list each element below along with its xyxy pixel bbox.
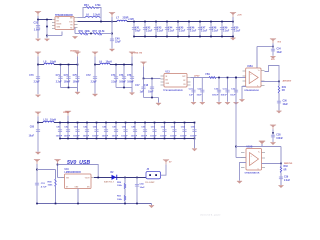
junction rail e bbox=[136, 203, 138, 205]
resistor R57 label bbox=[93, 30, 106, 37]
junction C81 bottom bbox=[59, 138, 61, 140]
ground G5 bbox=[230, 38, 235, 41]
ground G3 bbox=[109, 49, 114, 52]
op-amp U15B bbox=[246, 147, 262, 171]
svg-text:C71: C71 bbox=[56, 75, 61, 77]
svg-text:EN: EN bbox=[57, 21, 60, 23]
inductor L6 bbox=[85, 17, 100, 18]
capacitor C86 label bbox=[102, 126, 109, 137]
wire U15B inminus bbox=[240, 163, 247, 181]
capacitor C31 label bbox=[220, 88, 227, 96]
junction C50 top bbox=[232, 21, 234, 23]
svg-text:10nF: 10nF bbox=[196, 94, 202, 96]
svg-text:C80: C80 bbox=[30, 126, 35, 128]
capacitor C43 branch wire bbox=[155, 22, 157, 37]
svg-text:100nF: 100nF bbox=[141, 136, 148, 138]
wire block2 rail bbox=[95, 64, 132, 66]
capacitor C70 label bbox=[29, 75, 40, 83]
capacitor C89 branch bbox=[134, 123, 136, 139]
capacitor C90 label bbox=[141, 126, 148, 137]
resistor R54 label bbox=[84, 4, 89, 7]
junction C76 top bbox=[123, 64, 125, 66]
ground C21 bbox=[191, 102, 196, 105]
svg-text:100k: 100k bbox=[48, 185, 54, 187]
junction C45 bottom bbox=[177, 36, 179, 38]
capacitor C36 bbox=[277, 101, 281, 104]
connector J5 part text bbox=[145, 182, 155, 184]
svg-text:100nF: 100nF bbox=[160, 136, 167, 138]
capacitor C18 bbox=[150, 87, 154, 90]
capacitor C83 label bbox=[73, 126, 80, 137]
svg-text:R61: R61 bbox=[117, 196, 122, 198]
capacitor C70 bbox=[36, 76, 40, 79]
capacitor C73 branch bbox=[68, 65, 70, 88]
wire EN bus vertical bbox=[46, 20, 48, 39]
power flag VDD rail bbox=[109, 12, 115, 21]
capacitor C81 label bbox=[56, 126, 63, 137]
capacitor C74 label bbox=[111, 74, 118, 83]
capacitor C50 label bbox=[234, 26, 241, 32]
capacitor C38 bbox=[271, 135, 275, 138]
power flag 1V8 end bbox=[230, 12, 236, 21]
capacitor C36 label bbox=[283, 101, 289, 106]
wire U15A output bbox=[261, 81, 279, 83]
svg-text:VIN: VIN bbox=[57, 18, 61, 20]
resistor R33 label bbox=[284, 166, 289, 171]
capacitor C44 bbox=[165, 27, 169, 29]
capacitor C17 bbox=[141, 87, 145, 90]
capacitor C17 branch bbox=[143, 79, 145, 98]
capacitor C33 label bbox=[34, 22, 39, 25]
capacitor C80 bbox=[36, 129, 40, 132]
capacitor C90 bbox=[143, 129, 147, 132]
junction block1 gnd bbox=[68, 87, 70, 89]
capacitor C95 branch bbox=[194, 123, 196, 139]
junction C44 top bbox=[166, 21, 168, 23]
svg-text:C54: C54 bbox=[140, 183, 145, 186]
svg-text:100nF: 100nF bbox=[220, 94, 227, 96]
net label +1V8 bbox=[128, 18, 134, 21]
capacitor C43 bbox=[154, 27, 158, 29]
capacitor C84 branch bbox=[86, 123, 88, 139]
ground C31 bbox=[225, 102, 230, 105]
capacitor C82 label bbox=[64, 126, 71, 137]
junction C95 top bbox=[194, 122, 196, 124]
resistor R59 bbox=[124, 184, 125, 189]
ground G17 bbox=[259, 141, 265, 145]
junction C87 bottom bbox=[115, 138, 117, 140]
wire 1V8 bottom rail bbox=[134, 36, 233, 38]
svg-text:2.2uF: 2.2uF bbox=[223, 30, 230, 33]
svg-text:1%: 1% bbox=[96, 8, 99, 10]
capacitor C91 label bbox=[150, 126, 157, 137]
capacitor C92 bbox=[162, 129, 166, 132]
capacitor C94 branch bbox=[184, 123, 186, 139]
svg-text:GND: GND bbox=[57, 27, 61, 29]
svg-text:R59: R59 bbox=[117, 182, 122, 184]
junction C83 bottom bbox=[77, 138, 79, 140]
capacitor C81 bbox=[58, 129, 62, 132]
capacitor C41 bbox=[132, 27, 136, 29]
power flag VDD3 bbox=[35, 112, 41, 123]
capacitor C78 branch bbox=[131, 65, 133, 88]
capacitor C85 bbox=[94, 129, 98, 132]
svg-text:2.2uF: 2.2uF bbox=[179, 30, 186, 33]
junction C85 bottom bbox=[96, 138, 98, 140]
capacitor C18 label bbox=[144, 85, 154, 94]
sheet footnote bbox=[200, 214, 221, 217]
capacitor C38 branch bbox=[272, 133, 274, 142]
junction C49 bottom bbox=[221, 36, 223, 38]
inductor L7 bbox=[117, 20, 127, 21]
svg-text:100nF: 100nF bbox=[212, 94, 219, 96]
junction EN bus low bbox=[46, 35, 48, 37]
power flag VSYS bbox=[35, 11, 41, 19]
wire MODE riser bbox=[61, 32, 63, 36]
svg-text:5V0: 5V0 bbox=[278, 41, 281, 43]
svg-text:C75: C75 bbox=[73, 75, 78, 77]
wire VOUT main bbox=[78, 21, 118, 23]
svg-text:2.2uF: 2.2uF bbox=[212, 30, 219, 33]
inductor L10 bbox=[43, 121, 54, 122]
capacitor C42 bbox=[143, 27, 147, 29]
IC U15A pin stubs right bbox=[261, 71, 265, 86]
resistor R58 bbox=[55, 179, 56, 187]
svg-text:C38: C38 bbox=[276, 134, 281, 136]
svg-text:C73: C73 bbox=[64, 75, 69, 77]
ground C32 bbox=[233, 102, 238, 105]
junction C94 bottom bbox=[184, 138, 186, 140]
capacitor C45 bbox=[176, 27, 180, 29]
op-amp U12 pin stubs left bbox=[52, 20, 55, 29]
junction C42 bottom bbox=[144, 36, 146, 38]
svg-text:EN: EN bbox=[166, 80, 169, 82]
svg-text:2.2uF: 2.2uF bbox=[190, 30, 197, 33]
junction rail b bbox=[55, 203, 57, 205]
wire row3 gnd stem bbox=[194, 139, 196, 149]
wire LDO bottom rail bbox=[144, 97, 159, 99]
junction C90 top bbox=[144, 122, 146, 124]
junction C32 bbox=[235, 77, 237, 79]
svg-text:R58: R58 bbox=[48, 181, 53, 183]
wire ref input vertical bbox=[235, 78, 237, 158]
junction C49 top bbox=[221, 21, 223, 23]
svg-text:V+: V+ bbox=[258, 151, 260, 153]
junction C82 bottom bbox=[67, 138, 69, 140]
svg-text:10nF: 10nF bbox=[148, 92, 154, 94]
IC U13 part text bbox=[163, 89, 183, 92]
svg-text:100nF: 100nF bbox=[73, 136, 80, 138]
svg-text:2.2uF: 2.2uF bbox=[56, 81, 63, 83]
capacitor C34 label bbox=[277, 48, 283, 54]
ground G12 bbox=[276, 111, 281, 114]
svg-text:VOS: VOS bbox=[69, 22, 72, 24]
svg-text:sheet 2 of 4 - power: sheet 2 of 4 - power bbox=[200, 214, 221, 217]
capacitor C32 bbox=[234, 90, 238, 93]
capacitor C42 label bbox=[146, 26, 153, 32]
capacitor C34 bbox=[271, 49, 275, 52]
ground G10 bbox=[156, 103, 161, 106]
capacitor C45 label bbox=[179, 26, 186, 32]
capacitor C38 label bbox=[276, 134, 283, 139]
capacitor C81 branch bbox=[59, 123, 61, 139]
capacitor C76 label bbox=[119, 75, 126, 83]
junction C75 top bbox=[77, 64, 79, 66]
svg-text:5V: 5V bbox=[169, 162, 172, 164]
capacitor C93 branch bbox=[174, 123, 176, 139]
capacitor C31 branch bbox=[227, 78, 229, 102]
capacitor C22 branch bbox=[201, 78, 203, 102]
capacitor C21 branch bbox=[193, 78, 195, 102]
junction rail a bbox=[36, 203, 38, 205]
resistor R31 label bbox=[282, 87, 287, 92]
capacitor C48 label bbox=[212, 26, 219, 32]
wire ref right vertical bbox=[280, 147, 282, 164]
capacitor C45 branch wire bbox=[177, 22, 179, 37]
wire J5 to flag bbox=[161, 164, 167, 175]
capacitor C39 label bbox=[284, 176, 291, 181]
wire R58 riser bbox=[55, 170, 57, 180]
capacitor C54 bbox=[135, 184, 139, 187]
capacitor C93 label bbox=[170, 126, 177, 137]
junction block1 in bbox=[37, 64, 39, 66]
junction FB mid bbox=[90, 33, 92, 35]
junction C74 top bbox=[115, 64, 117, 66]
junction C82 top bbox=[67, 122, 69, 124]
junction C89 top bbox=[134, 122, 136, 124]
junction C91 top bbox=[154, 122, 156, 124]
junction C93 top bbox=[174, 122, 176, 124]
capacitor C42 branch wire bbox=[144, 22, 146, 37]
svg-text:2.2uF: 2.2uF bbox=[91, 81, 98, 83]
junction VOUT b bbox=[111, 21, 113, 23]
svg-text:AVDD5V: AVDD5V bbox=[283, 80, 292, 83]
svg-text:+: + bbox=[250, 74, 252, 76]
junction C41 top bbox=[133, 21, 135, 23]
junction C95 bottom bbox=[194, 138, 196, 140]
junction C30 bbox=[218, 77, 220, 79]
junction block2 in bbox=[94, 64, 96, 66]
wire C40 branch bbox=[111, 22, 113, 49]
svg-text:OPA2836IDGK: OPA2836IDGK bbox=[245, 172, 260, 175]
capacitor C30 label bbox=[212, 88, 219, 96]
capacitor C76 branch bbox=[123, 65, 125, 88]
junction row3 in bbox=[37, 122, 39, 124]
IC U15A part text bbox=[244, 89, 259, 92]
svg-text:FB: FB bbox=[183, 84, 186, 86]
capacitor C44 label bbox=[168, 26, 175, 32]
svg-text:5V0: 5V0 bbox=[271, 59, 275, 61]
capacitor C84 label bbox=[83, 125, 90, 137]
junction C78 top bbox=[131, 64, 133, 66]
wire AVDD branch bbox=[278, 82, 280, 111]
IC U15B part text bbox=[245, 172, 260, 175]
svg-text:V+: V+ bbox=[258, 70, 260, 72]
wire block2 gnd stem bbox=[131, 88, 133, 93]
junction C93 bottom bbox=[174, 138, 176, 140]
junction C44 bottom bbox=[166, 36, 168, 38]
svg-text:100nF: 100nF bbox=[92, 136, 99, 138]
svg-text:100nF: 100nF bbox=[121, 136, 128, 138]
svg-text:4.7uF: 4.7uF bbox=[41, 185, 47, 188]
capacitor C95 label bbox=[190, 126, 197, 137]
wire LDO in rail bbox=[144, 78, 161, 80]
svg-text:IN: IN bbox=[166, 76, 168, 78]
capacitor C30 branch bbox=[218, 78, 220, 102]
op-amp U15A bbox=[246, 65, 261, 87]
ground G13 bbox=[239, 99, 244, 102]
ground G2 bbox=[44, 39, 49, 42]
wire block1 bottom rail bbox=[61, 87, 78, 89]
wire row3 top rail bbox=[38, 122, 195, 124]
capacitor C83 bbox=[75, 129, 79, 132]
svg-text:VIN: VIN bbox=[66, 177, 70, 179]
capacitor C72 bbox=[93, 76, 97, 79]
capacitor C17 label bbox=[135, 85, 144, 94]
ground G19 bbox=[278, 185, 283, 188]
net text 5V0 bbox=[271, 59, 275, 61]
wire bottom rail bbox=[37, 203, 152, 205]
svg-text:OUT: OUT bbox=[182, 76, 185, 78]
capacitor C71 branch bbox=[60, 65, 62, 88]
power flag VUSB bbox=[34, 159, 40, 169]
resistor R33 bbox=[280, 167, 281, 173]
capacitor C88 label bbox=[121, 126, 128, 137]
resistor R54 loop wire bbox=[83, 8, 101, 22]
capacitor C75 label bbox=[73, 75, 80, 83]
wire C54 branch bbox=[136, 178, 138, 204]
svg-text:VDDMCU: VDDMCU bbox=[70, 50, 79, 52]
capacitor C86 bbox=[104, 129, 108, 132]
svg-text:+1V8: +1V8 bbox=[128, 18, 134, 21]
wire vusb vertical bbox=[36, 170, 38, 204]
ground G1 bbox=[35, 39, 40, 42]
wire LP5V rail bbox=[191, 77, 247, 79]
capacitor C74 bbox=[114, 76, 118, 79]
wire REF branch bbox=[280, 164, 282, 186]
capacitor C94 bbox=[182, 129, 186, 132]
svg-text:U15A: U15A bbox=[247, 65, 253, 68]
svg-text:FB: FB bbox=[70, 25, 73, 27]
inductor L6 label bbox=[86, 14, 100, 17]
power flag VDDMCU bbox=[74, 52, 80, 65]
capacitor C83 branch bbox=[77, 123, 79, 139]
wire VIN horizontal bbox=[38, 19, 52, 21]
junction block2 gnd bbox=[123, 87, 125, 89]
resistor R57 bbox=[93, 33, 102, 35]
svg-text:VDD33: VDD33 bbox=[63, 112, 69, 114]
wire vin5 to U16 bbox=[58, 177, 65, 179]
wire FB riser bbox=[74, 28, 76, 34]
capacitor C94 label bbox=[180, 125, 187, 137]
svg-text:2.2uF: 2.2uF bbox=[157, 30, 164, 33]
capacitor C22 label bbox=[196, 88, 202, 96]
svg-text:100nF: 100nF bbox=[73, 81, 80, 83]
ground G20 stem bbox=[151, 204, 153, 206]
capacitor C86 branch bbox=[105, 123, 107, 139]
capacitor C47 bbox=[198, 27, 202, 29]
capacitor C90 branch bbox=[144, 123, 146, 139]
IC U15B pin stubs right bbox=[262, 153, 266, 168]
ground G14 bbox=[35, 152, 40, 155]
junction C91 bottom bbox=[154, 138, 156, 140]
junction EN bus mid bbox=[46, 26, 48, 28]
IC U12 buck converter bbox=[55, 14, 74, 30]
junction rail d bbox=[124, 203, 126, 205]
capacitor C46 branch wire bbox=[188, 22, 190, 37]
diode D2 bbox=[112, 175, 118, 180]
wire top bypass bbox=[58, 165, 99, 178]
capacitor C51 bbox=[35, 183, 39, 186]
capacitor C33 bbox=[36, 25, 40, 28]
junction ref loop bbox=[235, 146, 237, 148]
resistor R61 bbox=[124, 196, 125, 201]
resistor R59 label bbox=[117, 182, 123, 187]
svg-text:0R: 0R bbox=[284, 170, 287, 172]
junction C46 top bbox=[188, 21, 190, 23]
svg-text:10uF: 10uF bbox=[283, 104, 289, 106]
capacitor C46 label bbox=[190, 26, 197, 32]
capacitor C32 label bbox=[230, 88, 236, 96]
svg-text:110-JUMP: 110-JUMP bbox=[145, 182, 155, 184]
IC U16 title bbox=[65, 169, 82, 174]
junction C41 bottom bbox=[133, 36, 135, 38]
capacitor C95 bbox=[192, 129, 196, 132]
svg-text:22uF: 22uF bbox=[115, 41, 121, 44]
ground C22 bbox=[200, 102, 205, 105]
IC U15A pin stubs left bbox=[243, 71, 247, 86]
capacitor C78 bbox=[130, 76, 134, 79]
IC U13 pin stubs left bbox=[161, 76, 165, 85]
svg-text:2.2uF: 2.2uF bbox=[34, 81, 41, 83]
resistor R56 bbox=[79, 33, 88, 35]
junction LDO in2 bbox=[151, 78, 153, 80]
resistor R54 bbox=[86, 7, 95, 9]
junction vout c bbox=[136, 177, 138, 179]
capacitor C92 branch bbox=[164, 123, 166, 139]
capacitor C88 branch bbox=[125, 123, 127, 139]
net text VSW bbox=[169, 162, 172, 164]
svg-text:100nF: 100nF bbox=[127, 81, 134, 83]
svg-text:VDD_PA: VDD_PA bbox=[134, 51, 143, 54]
wire block1 gnd stem bbox=[77, 88, 79, 92]
svg-text:100k: 100k bbox=[117, 199, 123, 201]
junction C47 top bbox=[199, 21, 201, 23]
svg-text:C33: C33 bbox=[34, 22, 39, 25]
capacitor C39 bbox=[279, 177, 283, 180]
svg-text:100nF: 100nF bbox=[83, 136, 90, 138]
wire row3 bottom rail bbox=[60, 138, 195, 140]
capacitor C40 bbox=[110, 39, 114, 42]
svg-text:L7: L7 bbox=[116, 17, 120, 20]
svg-text:2.2uF: 2.2uF bbox=[168, 30, 175, 33]
svg-text:LP5V: LP5V bbox=[194, 75, 200, 77]
svg-text:100nF: 100nF bbox=[56, 136, 63, 138]
junction C85 top bbox=[96, 122, 98, 124]
junction vout a bbox=[97, 177, 99, 179]
capacitor C74 branch bbox=[115, 65, 117, 88]
junction C31 bbox=[227, 77, 229, 79]
capacitor C87 label bbox=[112, 126, 119, 137]
wire U15A feedback bbox=[265, 66, 280, 82]
svg-text:1%: 1% bbox=[99, 35, 102, 37]
wire 1V8 top rail bbox=[127, 21, 233, 23]
wire R58 lower bbox=[55, 187, 57, 204]
junction C73 top bbox=[68, 64, 70, 66]
junction C92 bottom bbox=[164, 138, 166, 140]
wire FB horizontal bbox=[75, 33, 112, 35]
IC U16 load switch bbox=[65, 174, 92, 189]
